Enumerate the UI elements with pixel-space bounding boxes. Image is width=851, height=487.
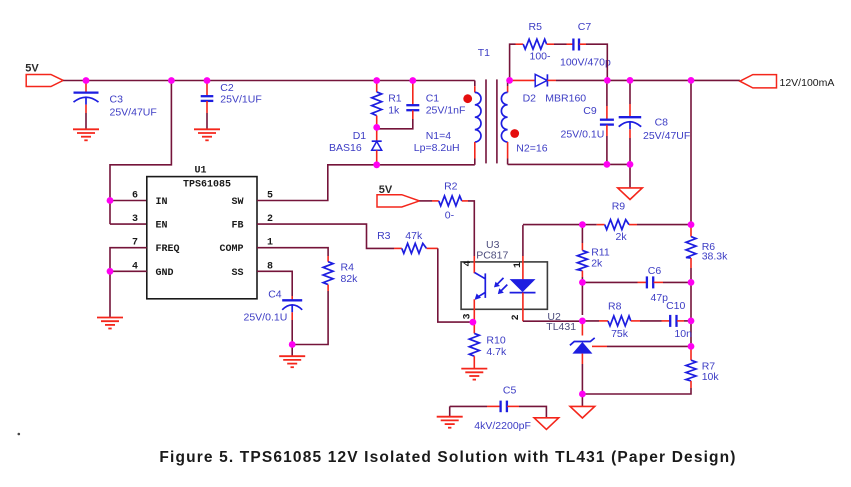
svg-text:R2: R2 <box>444 180 458 192</box>
junction <box>604 77 611 84</box>
svg-text:25V/47UF: 25V/47UF <box>110 107 157 119</box>
svg-text:3: 3 <box>462 313 473 319</box>
wire SW pin 5 to primary bottom rail <box>257 165 475 201</box>
ground secondary C8 <box>618 188 643 200</box>
svg-text:R8: R8 <box>608 301 622 313</box>
junction <box>688 77 695 84</box>
svg-text:BAS16: BAS16 <box>329 142 362 154</box>
wire C4 to ground <box>291 345 293 357</box>
junction <box>107 197 114 204</box>
wire FB pin 2 to R3 <box>257 224 394 248</box>
svg-text:4: 4 <box>463 260 474 266</box>
junction <box>688 343 695 350</box>
resistor R10 <box>469 322 507 369</box>
junction <box>506 77 513 84</box>
wire C5 left to ground <box>449 406 451 416</box>
svg-text:GND: GND <box>156 268 174 279</box>
op-amp U1 TPS61085 <box>132 166 273 299</box>
svg-text:3: 3 <box>132 214 138 225</box>
junction <box>83 77 90 84</box>
svg-text:C8: C8 <box>655 117 669 129</box>
resistor R6 <box>686 225 728 268</box>
stray dot <box>18 433 21 436</box>
resistor R3 <box>377 230 438 254</box>
junction <box>627 161 634 168</box>
resistor R5 <box>516 21 555 63</box>
junction <box>579 391 586 398</box>
ground C5 left <box>437 417 463 428</box>
svg-text:EN: EN <box>156 221 168 232</box>
svg-text:FB: FB <box>231 221 243 232</box>
wire EN pin 3 <box>110 223 147 225</box>
junction <box>688 221 695 228</box>
diode D1 BAS16 <box>329 127 382 164</box>
svg-text:25V/0.1U: 25V/0.1U <box>561 129 605 141</box>
wire C7 to output node <box>586 44 607 80</box>
svg-text:75k: 75k <box>611 328 629 340</box>
capacitor C6 <box>582 265 691 304</box>
junction <box>579 221 586 228</box>
svg-text:1k: 1k <box>388 104 400 116</box>
svg-text:2k: 2k <box>616 231 628 243</box>
junction <box>168 77 175 84</box>
wire FREQ pin 7 to ground rail <box>110 248 147 318</box>
resistor R4 <box>323 256 358 291</box>
junction <box>204 77 211 84</box>
junction <box>289 341 296 348</box>
wire COMP pin 1 to R4 <box>257 248 328 256</box>
capacitor C3 <box>74 81 157 130</box>
svg-text:12V/100mA: 12V/100mA <box>780 77 835 89</box>
svg-text:Figure 5. TPS61085 12V Isolate: Figure 5. TPS61085 12V Isolated Solution… <box>159 449 736 466</box>
svg-text:Lp=8.2uH: Lp=8.2uH <box>414 142 460 154</box>
wire C8 to ground <box>629 164 631 188</box>
svg-text:R3: R3 <box>377 230 391 242</box>
svg-text:D1: D1 <box>353 130 367 142</box>
wire bottom rail TL431 anode to R7 <box>582 388 691 394</box>
svg-text:25V/1nF: 25V/1nF <box>426 104 466 116</box>
svg-text:5V: 5V <box>379 184 393 196</box>
resistor R8 <box>582 301 661 340</box>
capacitor C5 <box>450 385 547 432</box>
svg-text:2: 2 <box>511 314 522 320</box>
svg-text:R4: R4 <box>341 262 355 274</box>
svg-text:R1: R1 <box>388 93 402 105</box>
svg-text:C7: C7 <box>578 21 592 33</box>
svg-text:6: 6 <box>132 191 138 202</box>
capacitor C2 <box>201 81 262 130</box>
wire LED anode to R9 node <box>523 224 583 226</box>
svg-text:0-: 0- <box>445 210 455 222</box>
resistor R11 <box>577 225 609 315</box>
svg-text:R9: R9 <box>612 201 626 213</box>
wire SS pin 8 to C4 <box>257 271 292 296</box>
wire opto pin 2 to TL431 cathode <box>523 320 583 322</box>
svg-text:SS: SS <box>231 268 243 279</box>
svg-text:TPS61085: TPS61085 <box>183 180 231 191</box>
svg-text:C10: C10 <box>666 300 685 312</box>
optocoupler U3 PC817 <box>461 225 547 322</box>
resistor R7 <box>686 346 719 388</box>
wire snubber loop <box>510 44 516 80</box>
capacitor C4 <box>244 289 303 345</box>
svg-text:25V/47UF: 25V/47UF <box>643 130 690 142</box>
svg-text:IN: IN <box>156 197 168 208</box>
wire 5V to IN/EN <box>110 81 171 225</box>
wire output rail <box>607 79 740 81</box>
svg-text:C6: C6 <box>648 265 662 277</box>
junction <box>604 161 611 168</box>
svg-text:C4: C4 <box>268 289 282 301</box>
wire output to right rail <box>690 80 692 224</box>
junction <box>470 319 477 326</box>
svg-text:C2: C2 <box>220 82 234 94</box>
junction <box>627 77 634 84</box>
junction <box>373 161 380 168</box>
resistor R9 <box>582 201 691 244</box>
wire to secondary ground <box>581 394 583 406</box>
svg-text:PC817: PC817 <box>476 249 508 261</box>
junction <box>688 318 695 325</box>
svg-text:5V: 5V <box>25 63 39 75</box>
capacitor C10 <box>662 300 693 340</box>
svg-text:MBR160: MBR160 <box>545 93 586 105</box>
svg-text:38.3k: 38.3k <box>702 251 728 263</box>
svg-text:U1: U1 <box>195 166 207 177</box>
resistor R2 <box>419 180 468 221</box>
ground C2 <box>194 129 220 140</box>
junction <box>373 124 380 131</box>
power flag 5V (R2) <box>377 184 419 207</box>
svg-text:COMP: COMP <box>219 244 243 255</box>
capacitor C9 <box>561 80 614 164</box>
resistor R1 <box>372 81 402 128</box>
wire R3 to opto pin 3 <box>438 248 473 322</box>
svg-text:4kV/2200pF: 4kV/2200pF <box>474 420 531 432</box>
capacitor C1 <box>377 81 466 129</box>
junction <box>579 318 586 325</box>
ground C3 <box>73 129 99 140</box>
svg-text:25V/0.1U: 25V/0.1U <box>244 312 288 324</box>
svg-text:2k: 2k <box>591 257 603 269</box>
svg-text:TL431: TL431 <box>546 321 576 333</box>
wire right rail R6 to ref <box>690 268 692 346</box>
svg-text:R5: R5 <box>529 21 543 33</box>
wire R5 to C7 <box>554 43 567 45</box>
svg-text:100V/470p: 100V/470p <box>560 57 611 69</box>
svg-text:C1: C1 <box>426 93 440 105</box>
junction <box>409 77 416 84</box>
power flag 5V input <box>25 63 63 87</box>
svg-text:C3: C3 <box>110 93 124 105</box>
wire secondary bottom rail <box>508 163 630 165</box>
junction <box>107 268 114 275</box>
ground TL431 <box>570 406 595 418</box>
wire TL431 ref to divider <box>607 345 691 347</box>
ground C4 <box>279 356 305 367</box>
junction <box>373 77 380 84</box>
svg-text:C5: C5 <box>503 385 517 397</box>
svg-text:10k: 10k <box>702 371 720 383</box>
transformer T1 <box>414 47 548 165</box>
diode D2 MBR160 <box>510 74 608 104</box>
svg-text:C9: C9 <box>583 105 597 117</box>
ground U1 GND <box>97 318 123 329</box>
svg-text:10n: 10n <box>674 328 692 340</box>
svg-text:25V/1UF: 25V/1UF <box>220 93 261 105</box>
wire 5V top rail <box>63 80 475 82</box>
junction <box>688 279 695 286</box>
wire GND pin 4 <box>110 270 147 272</box>
wire IN pin 6 <box>110 200 147 202</box>
svg-text:T1: T1 <box>478 47 490 59</box>
junction <box>579 279 586 286</box>
svg-text:N2=16: N2=16 <box>516 143 547 155</box>
ground R10 <box>461 369 487 380</box>
capacitor C8 <box>619 80 691 164</box>
svg-text:FREQ: FREQ <box>156 244 180 255</box>
capacitor C7 <box>560 21 611 69</box>
power flag 12V/100mA output <box>740 75 834 89</box>
shunt regulator U2 TL431 <box>546 311 607 394</box>
svg-text:N1=4: N1=4 <box>426 130 452 142</box>
svg-text:100-: 100- <box>530 50 552 62</box>
svg-text:82k: 82k <box>341 273 359 285</box>
svg-text:SW: SW <box>231 197 243 208</box>
svg-text:R10: R10 <box>486 334 505 346</box>
svg-text:4.7k: 4.7k <box>486 346 507 358</box>
svg-text:D2: D2 <box>523 93 537 105</box>
wire R2 to opto pin 4 <box>468 201 474 256</box>
svg-text:47k: 47k <box>405 230 423 242</box>
svg-text:1: 1 <box>513 262 524 268</box>
ground C5 right <box>534 418 559 430</box>
wire R4 bottom to C4 bottom <box>292 291 328 345</box>
